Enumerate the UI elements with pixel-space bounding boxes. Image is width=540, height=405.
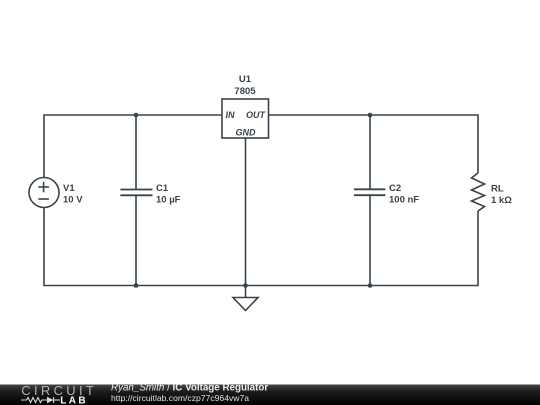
resistor RL xyxy=(472,173,485,211)
wire: top net, U1 OUT to RL top xyxy=(269,115,479,173)
svg-text:10 V: 10 V xyxy=(63,194,83,205)
capacitor C1 xyxy=(120,190,152,196)
svg-text:7805: 7805 xyxy=(234,86,256,97)
IC U1 7805 regulator xyxy=(222,99,269,138)
label U1 designator xyxy=(234,74,256,97)
node: junction OUT/C2 top xyxy=(368,113,373,118)
node: junction C2 bottom xyxy=(368,283,373,288)
svg-text:1 kΩ: 1 kΩ xyxy=(491,195,512,206)
wire: U1 GND pin to bottom net xyxy=(245,138,247,286)
svg-text:RL: RL xyxy=(491,183,504,194)
svg-text:IN: IN xyxy=(226,110,236,120)
svg-text:LAB: LAB xyxy=(60,395,88,405)
label C2 value xyxy=(389,183,419,206)
label C1 value xyxy=(156,183,181,206)
label RL value xyxy=(491,183,512,206)
ground xyxy=(233,286,258,311)
node: junction V1/C1 top xyxy=(134,113,139,118)
svg-text:OUT: OUT xyxy=(246,110,267,120)
wire: C1 top branch xyxy=(135,115,137,190)
capacitor C2 xyxy=(354,189,386,195)
logo resistor-diode graphic xyxy=(21,397,60,403)
node: junction C1 bottom xyxy=(134,283,139,288)
wire: C1 bottom branch xyxy=(135,195,137,285)
wire: top net, V1 top to U1 IN xyxy=(44,115,222,178)
svg-text:http://circuitlab.com/czp77c96: http://circuitlab.com/czp77c964vw7a xyxy=(111,393,249,403)
wire: C2 top branch xyxy=(369,115,371,189)
label V1 value xyxy=(63,183,83,206)
svg-text:C1: C1 xyxy=(156,183,169,194)
svg-text:GND: GND xyxy=(236,128,257,138)
wire: C2 bottom branch xyxy=(369,195,371,285)
svg-text:100 nF: 100 nF xyxy=(389,194,419,205)
voltage source V1 xyxy=(29,178,59,208)
wire: bottom net, V1 bottom to RL bottom xyxy=(44,208,478,286)
svg-text:C2: C2 xyxy=(389,183,401,194)
svg-text:U1: U1 xyxy=(239,74,252,85)
svg-text:10 µF: 10 µF xyxy=(156,194,181,205)
svg-text:V1: V1 xyxy=(63,183,75,194)
node: junction GND bottom xyxy=(243,283,248,288)
